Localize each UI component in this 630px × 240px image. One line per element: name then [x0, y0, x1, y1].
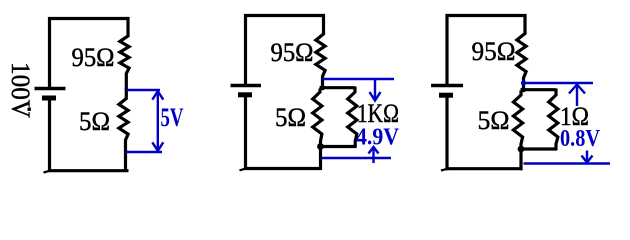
node: circuit 2 bottom junction dot	[317, 143, 324, 150]
wire: circuit 1 mid segment between R1 and R2	[125, 88, 128, 99]
resistor R4 5 ohm (circuit 2 left branch)	[313, 89, 322, 148]
node: circuit 2 top junction	[320, 85, 325, 90]
wire: circuit 1 right wire upper	[126, 17, 129, 36]
svg-text:5V: 5V	[161, 103, 184, 132]
resistor R7 5 ohm (circuit 3 left branch)	[513, 91, 522, 150]
wire: circuit 2 right wire upper	[322, 14, 325, 34]
wire: blue tap line top (circuit 3)	[524, 82, 594, 84]
wire: circuit 2 left wire upper	[244, 14, 247, 85]
wire: circuit 2 top rail	[244, 14, 325, 17]
resistor R8 1 ohm (circuit 3 right branch)	[549, 89, 558, 151]
wire: overshoot tick at circuit 3 bottom-left corner	[441, 169, 447, 171]
wire: overshoot tick at circuit 1 bottom-left corner	[44, 171, 50, 173]
wire: circuit 3 top rail	[446, 14, 527, 17]
svg-text:4.9V: 4.9V	[356, 125, 400, 151]
battery B2 positive plate	[231, 84, 262, 88]
wire: circuit 1 left wire lower (battery - lead)	[48, 98, 51, 172]
stray dot next to 100V label	[28, 108, 31, 111]
node: circuit 3 bottom junction dot	[518, 146, 525, 153]
wire: blue tap line bottom (bottom node)	[126, 151, 163, 153]
wire: circuit 2 parallel top node	[320, 86, 356, 89]
wire: circuit 2 left wire lower	[244, 95, 247, 170]
wire: circuit 3 parallel top node	[521, 88, 557, 91]
wire: circuit 3 right wire upper	[523, 14, 526, 34]
battery B3 negative plate	[439, 93, 453, 98]
wire: circuit 3 parallel bottom node	[519, 147, 557, 150]
battery B1 negative plate	[42, 96, 56, 101]
wire: circuit 2 bottom rail	[244, 167, 322, 170]
resistor R2 5 ohm (circuit 1)	[119, 98, 128, 152]
battery B3 positive plate	[431, 84, 463, 88]
resistor R5 1K ohm (circuit 2 right branch)	[348, 87, 357, 148]
wire: blue tap line top (node between R1 and R2)	[126, 89, 160, 91]
arrow: down arrow to bottom tap (circuit 3)	[586, 151, 588, 163]
svg-text:95Ω: 95Ω	[271, 38, 314, 67]
node: circuit 3 top junction	[521, 87, 526, 92]
svg-text:95Ω: 95Ω	[472, 37, 516, 66]
wire: circuit 3 left wire lower	[445, 95, 448, 170]
svg-text:0.8V: 0.8V	[560, 126, 601, 152]
wire: circuit 3 lower link to bottom rail	[519, 149, 522, 170]
wire: circuit 1 right wire lower to bottom rail	[124, 150, 127, 172]
arrow: up arrow to top tap (circuit 3)	[576, 85, 578, 107]
wire: circuit 2 parallel bottom node	[319, 145, 357, 148]
resistor R1 95 ohm (circuit 1)	[120, 35, 129, 90]
resistor R6 95 ohm (circuit 3)	[517, 33, 526, 92]
svg-text:95Ω: 95Ω	[72, 43, 115, 72]
battery B2 negative plate	[238, 92, 252, 97]
svg-text:5Ω: 5Ω	[275, 103, 306, 132]
arrow: up arrow through bottom tap (circuit 2)	[372, 148, 374, 164]
node: blue dot on circuit 3 upper wire	[521, 80, 526, 85]
wire: blue tap line bottom (circuit 2)	[322, 157, 392, 159]
wire: circuit 1 top rail	[48, 17, 129, 20]
wire: circuit 1 left wire upper (battery + lead)	[48, 17, 51, 88]
wire: overshoot tick at circuit 2 bottom-left corner	[240, 169, 246, 171]
arrow: down arrow from top tap (circuit 2)	[374, 79, 376, 100]
svg-text:5Ω: 5Ω	[79, 107, 110, 136]
arrow: 5V measurement double arrow	[157, 92, 159, 151]
wire: circuit 3 left wire upper	[445, 14, 448, 85]
wire: blue tap line bottom (circuit 3)	[524, 162, 611, 164]
wire: circuit 3 bottom rail	[446, 167, 523, 170]
svg-text:5Ω: 5Ω	[478, 106, 510, 135]
battery B1 positive plate	[35, 87, 66, 91]
wire: circuit 2 lower link to bottom rail	[319, 147, 322, 171]
wire: blue tap line top (circuit 2)	[323, 78, 395, 80]
resistor R3 95 ohm (circuit 2)	[316, 33, 325, 89]
wire: circuit 1 bottom rail	[48, 169, 129, 172]
